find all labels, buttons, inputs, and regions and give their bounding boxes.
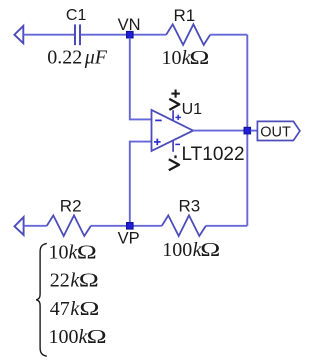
brace for resistor value list [36, 243, 47, 356]
svg-text:100k: 100k [49, 326, 89, 348]
wire R2 to node VP [91, 225, 162, 227]
node VP [127, 223, 133, 229]
wire R1 to right rail corner [210, 34, 247, 36]
svg-text:Ω: Ω [189, 47, 209, 69]
black rotated V+ text: chevron (rotated V) [169, 99, 179, 110]
port P1 (top-left input terminal) [14, 26, 23, 43]
resistor R3 [162, 215, 206, 236]
wire junction to OUT port [251, 130, 258, 132]
svg-text:Ω: Ω [79, 298, 99, 320]
wire port P2 to R2 [24, 225, 47, 227]
op-amp inverting input marker - [155, 119, 162, 121]
op-amp V- power pin stub [172, 140, 174, 152]
junction node at OUT [244, 127, 250, 133]
black rotated V+ text: plus [171, 90, 179, 98]
port OUT (pentagon) [257, 121, 300, 140]
wire port P1 to C1 left plate [23, 34, 74, 36]
blue - marker at V- pin [175, 143, 180, 145]
svg-text:C1: C1 [66, 7, 87, 24]
svg-text:LT1022: LT1022 [182, 144, 245, 165]
wire VP up to op-amp non-inverting input [130, 142, 152, 223]
svg-text:U1: U1 [182, 101, 203, 118]
resistor R1 [166, 24, 210, 45]
svg-text:R1: R1 [174, 6, 196, 25]
op-amp U1 triangle [152, 110, 194, 151]
black rotated V- text: dash [174, 155, 176, 158]
capacitor C1 [75, 24, 80, 45]
wire op-amp output to junction [193, 130, 247, 132]
svg-text:VP: VP [118, 230, 140, 248]
wire right feedback rail (vertical) [246, 35, 248, 226]
black rotated V- text: chevron (rotated V) [169, 159, 179, 170]
svg-text:VN: VN [118, 16, 141, 34]
svg-text:Ω: Ω [87, 326, 107, 348]
svg-text:0.22μF: 0.22μF [47, 47, 108, 69]
op-amp non-inverting input marker + [154, 139, 161, 146]
wire R3 to right rail corner [206, 225, 247, 227]
svg-text:22k: 22k [50, 270, 81, 292]
node VN [127, 32, 133, 38]
resistor R2 [47, 215, 91, 236]
svg-text:47k: 47k [50, 298, 81, 320]
svg-text:Ω: Ω [77, 241, 97, 263]
svg-text:10k: 10k [162, 47, 192, 69]
blue + marker at V+ pin [176, 115, 181, 120]
op-amp V+ power pin stub [172, 110, 174, 121]
svg-text:Ω: Ω [200, 239, 220, 261]
svg-text:Ω: Ω [79, 270, 99, 292]
wire C1 to R1 through node VN [81, 34, 166, 36]
svg-text:R3: R3 [179, 196, 201, 215]
svg-text:100k: 100k [162, 239, 202, 261]
svg-text:10k: 10k [49, 241, 79, 263]
svg-text:OUT: OUT [260, 125, 291, 141]
wire VN down to op-amp inverting input [130, 38, 152, 120]
svg-text:R2: R2 [60, 196, 82, 215]
port P2 (bottom-left input terminal) [15, 217, 24, 235]
